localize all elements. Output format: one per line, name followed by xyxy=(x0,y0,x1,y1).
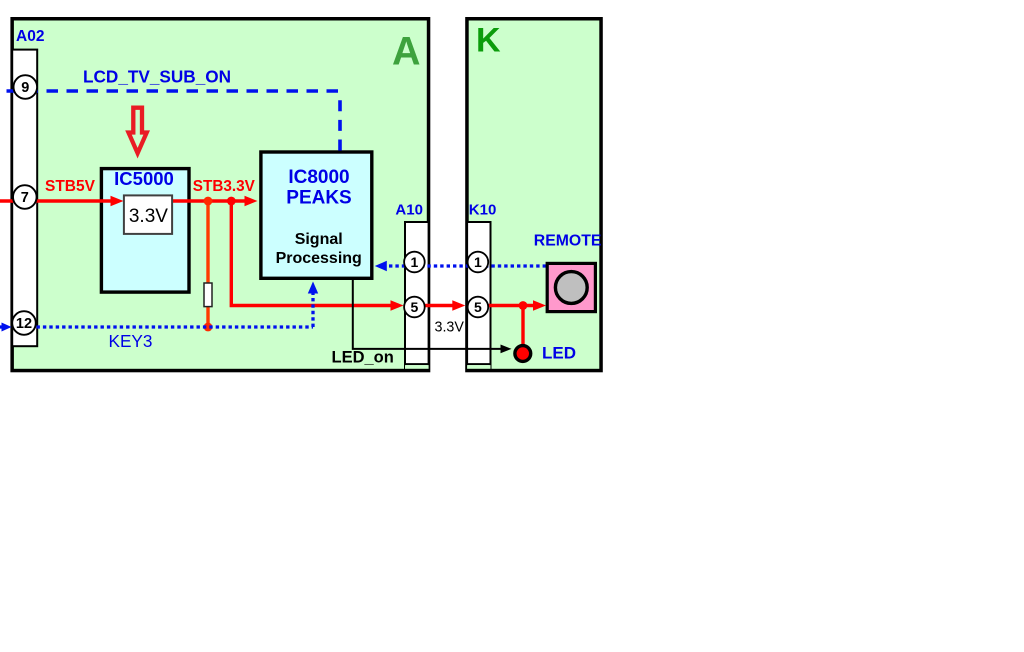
svg-text:Processing: Processing xyxy=(276,250,362,267)
big red callout arrow xyxy=(129,108,147,154)
wire red vertical down from STB3.3V to 3.3V rail xyxy=(231,201,399,306)
A10 pin 5 circle xyxy=(404,297,425,318)
wire KEY3 dotted vertical to IC8000 xyxy=(311,289,314,327)
svg-text:IC5000: IC5000 xyxy=(114,168,174,189)
IC5000 box xyxy=(101,169,189,293)
svg-text:5: 5 xyxy=(411,299,419,315)
3.3V regulator box inside IC5000 xyxy=(124,195,172,234)
arrowhead into K10 pin 5 xyxy=(452,300,465,310)
arrowhead into 3.3V regulator xyxy=(111,196,124,206)
wire KEY3 dotted xyxy=(37,325,314,328)
svg-text:3.3V: 3.3V xyxy=(435,319,465,335)
wire red A10 pin5 to K10 pin5 xyxy=(425,304,456,307)
board K xyxy=(467,19,601,371)
svg-text:KEY3: KEY3 xyxy=(109,331,153,351)
wire vertical through fuse to KEY3 node xyxy=(206,201,209,327)
wire red K10 pin5 to REMOTE xyxy=(488,304,537,307)
svg-text:PEAKS: PEAKS xyxy=(286,187,351,208)
wire stub into pin 12 with arrowhead xyxy=(0,325,4,328)
connector A02 strip xyxy=(12,50,37,347)
K10 pin 5 circle xyxy=(468,297,489,318)
pin 12 circle xyxy=(12,311,36,335)
REMOTE sensor lens circle xyxy=(555,272,587,304)
pin 7 circle xyxy=(13,185,37,209)
connector K10 strip xyxy=(467,222,490,369)
svg-text:1: 1 xyxy=(411,254,419,270)
svg-text:LCD_TV_SUB_ON: LCD_TV_SUB_ON xyxy=(83,67,231,87)
svg-text:9: 9 xyxy=(21,80,29,96)
svg-text:STB5V: STB5V xyxy=(45,178,96,195)
board A xyxy=(12,19,428,371)
junction dot on STB3.3V at fuse branch xyxy=(204,197,213,206)
svg-text:LED: LED xyxy=(542,344,576,363)
wire IR dotted from REMOTE to IC8000 xyxy=(382,264,546,267)
K10 pin 1 circle xyxy=(468,252,489,273)
wire red down to LED xyxy=(521,306,524,347)
svg-text:A02: A02 xyxy=(16,28,44,45)
wire STB5V red from edge to IC5000 xyxy=(0,199,114,202)
junction dot at KEY3 line xyxy=(204,323,213,332)
wire LCD_TV_SUB_ON dashed vertical drop to IC8000 xyxy=(338,94,342,151)
A10 pin 1 circle xyxy=(404,252,425,273)
arrowhead KEY3 up into IC8000 xyxy=(308,282,318,294)
arrowhead into REMOTE xyxy=(533,300,546,310)
svg-text:7: 7 xyxy=(21,190,29,206)
svg-text:LED_on: LED_on xyxy=(332,348,394,366)
fuse xyxy=(204,283,212,307)
connector A10 strip xyxy=(405,222,429,369)
wire LED_on black from IC8000 bottom xyxy=(353,280,503,349)
svg-text:1: 1 xyxy=(474,254,482,270)
svg-text:Signal: Signal xyxy=(295,231,343,248)
arrowhead into IC8000 xyxy=(245,196,258,206)
wire STB3.3V red from regulator to IC8000 xyxy=(173,199,248,202)
svg-text:STB3.3V: STB3.3V xyxy=(193,178,256,195)
arrowhead into A10 pin 5 xyxy=(391,300,404,310)
wire LCD_TV_SUB_ON dashed horizontal xyxy=(0,89,338,93)
LED xyxy=(515,346,531,362)
svg-text:K: K xyxy=(476,21,501,59)
svg-text:12: 12 xyxy=(16,316,32,332)
junction dot above LED xyxy=(519,301,528,310)
svg-text:K10: K10 xyxy=(469,201,497,218)
arrowhead IR into IC8000 xyxy=(375,261,387,271)
svg-text:IC8000: IC8000 xyxy=(288,167,349,188)
svg-text:A: A xyxy=(392,29,421,73)
svg-text:A10: A10 xyxy=(395,201,423,218)
junction dot on STB3.3V at rail branch xyxy=(227,197,236,206)
REMOTE sensor box xyxy=(547,263,595,311)
IC8000 box xyxy=(261,152,372,278)
svg-text:REMOTE: REMOTE xyxy=(534,233,602,250)
pin 9 circle xyxy=(13,75,37,99)
svg-text:5: 5 xyxy=(474,299,482,315)
arrowhead black into LED xyxy=(501,345,512,354)
svg-text:3.3V: 3.3V xyxy=(129,206,168,227)
